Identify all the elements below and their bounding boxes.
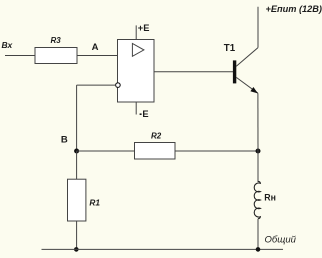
svg-text:В: В [61, 135, 68, 146]
junction dot coil-rail [256, 247, 261, 252]
svg-text:R2: R2 [151, 132, 162, 141]
wire collector to +E supply [257, 7, 259, 48]
wire node B down to R1 [76, 151, 78, 179]
svg-text:R3: R3 [51, 36, 62, 45]
wire input to R3 [5, 55, 35, 57]
wire Rн to ground rail [257, 219, 259, 250]
wire common rail [42, 248, 284, 250]
resistor R1 [68, 179, 101, 221]
wire +E supply [135, 25, 137, 39]
wire emitter down to node [257, 93, 259, 151]
resistor R3 [35, 36, 77, 64]
wire node B to R2 [77, 150, 135, 152]
inductor Rн [254, 181, 276, 218]
svg-text:A: A [92, 42, 99, 53]
wire op-amp output to base of T1 [154, 71, 233, 73]
svg-text:Вх: Вх [2, 40, 14, 50]
wire corner down to node B [76, 85, 78, 151]
op-amp inverting input circle [116, 83, 121, 88]
svg-text:Rн: Rн [264, 193, 276, 203]
wire inverting input to corner [77, 84, 116, 86]
node B junction dot [74, 149, 79, 154]
wire R1 to ground rail [76, 221, 78, 249]
wire -E supply [135, 102, 137, 115]
svg-text:E: E [142, 109, 148, 119]
svg-text:R1: R1 [89, 197, 100, 207]
op-amp U1 body [118, 40, 155, 103]
svg-text:T1: T1 [224, 43, 236, 54]
resistor R2 [135, 132, 176, 160]
label -E [140, 109, 149, 119]
svg-text:+Eпит (12В): +Eпит (12В) [266, 4, 322, 14]
svg-text:Общий: Общий [265, 235, 297, 246]
wire node down to Rн coil [257, 151, 259, 182]
junction dot R1-rail [74, 247, 79, 252]
transistor T1 [224, 43, 258, 93]
wire R2 to emitter node [175, 150, 258, 152]
wire R3 to op-amp input A [77, 55, 118, 57]
junction dot emitter node [256, 149, 261, 154]
svg-text:+E: +E [138, 23, 150, 33]
